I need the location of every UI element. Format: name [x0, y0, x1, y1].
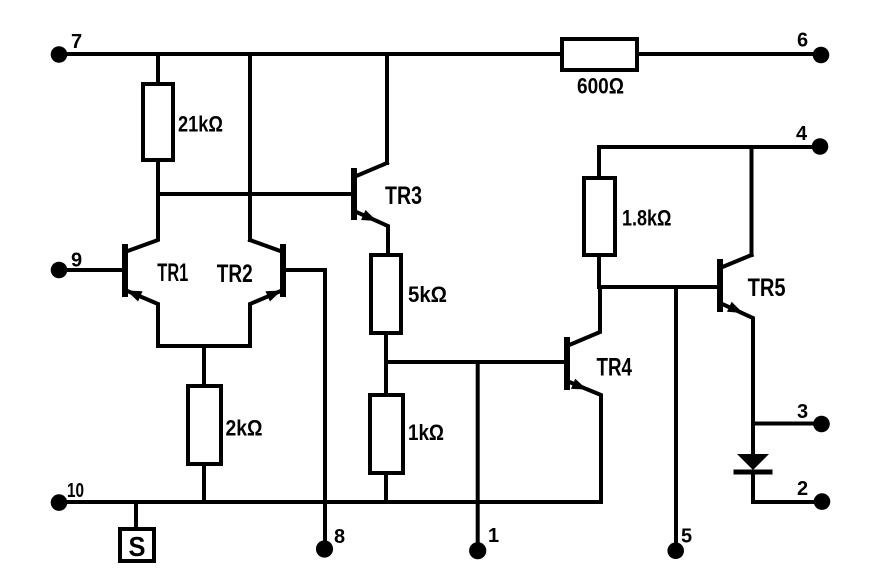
svg-text:8: 8: [334, 526, 345, 548]
svg-text:TR4: TR4: [597, 353, 633, 381]
svg-text:2: 2: [797, 478, 808, 500]
svg-text:5: 5: [681, 525, 692, 547]
svg-text:TR5: TR5: [748, 274, 786, 302]
svg-text:10: 10: [67, 480, 84, 502]
svg-text:6: 6: [797, 30, 808, 52]
svg-text:1.8kΩ: 1.8kΩ: [622, 206, 672, 231]
svg-text:9: 9: [71, 250, 82, 272]
svg-text:3: 3: [797, 401, 808, 423]
svg-text:21kΩ: 21kΩ: [178, 112, 223, 137]
svg-text:TR2: TR2: [217, 260, 253, 288]
svg-text:S: S: [129, 531, 146, 562]
svg-text:1: 1: [488, 525, 499, 547]
svg-text:600Ω: 600Ω: [577, 74, 624, 99]
svg-text:4: 4: [796, 123, 808, 145]
svg-text:2kΩ: 2kΩ: [226, 416, 263, 441]
svg-text:TR1: TR1: [157, 259, 188, 287]
svg-text:5kΩ: 5kΩ: [408, 282, 447, 307]
svg-text:7: 7: [71, 31, 82, 53]
svg-text:1kΩ: 1kΩ: [408, 420, 444, 445]
svg-text:TR3: TR3: [385, 182, 422, 210]
